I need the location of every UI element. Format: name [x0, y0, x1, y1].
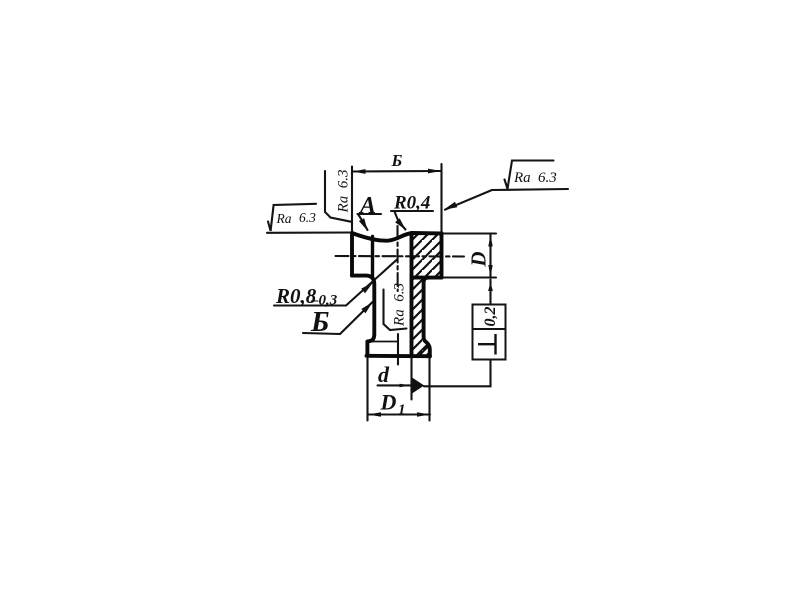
svg-text:Б: Б: [310, 306, 329, 338]
svg-text:1: 1: [398, 402, 406, 418]
svg-text:A: A: [358, 193, 376, 219]
svg-text:R0,4: R0,4: [393, 193, 430, 214]
svg-text:Ra 6.3: Ra 6.3: [336, 170, 352, 214]
svg-text:Б: Б: [391, 151, 403, 170]
svg-text:0,2: 0,2: [482, 307, 499, 327]
svg-text:6.3: 6.3: [538, 170, 557, 186]
svg-text:D: D: [467, 251, 491, 267]
svg-text:Ra: Ra: [513, 170, 531, 186]
svg-text:Ra: Ra: [276, 211, 292, 226]
svg-text:Ra 6.3: Ra 6.3: [392, 283, 408, 327]
svg-text:6.3: 6.3: [299, 210, 316, 225]
svg-text:d: d: [378, 362, 390, 387]
svg-text:D: D: [380, 390, 397, 415]
